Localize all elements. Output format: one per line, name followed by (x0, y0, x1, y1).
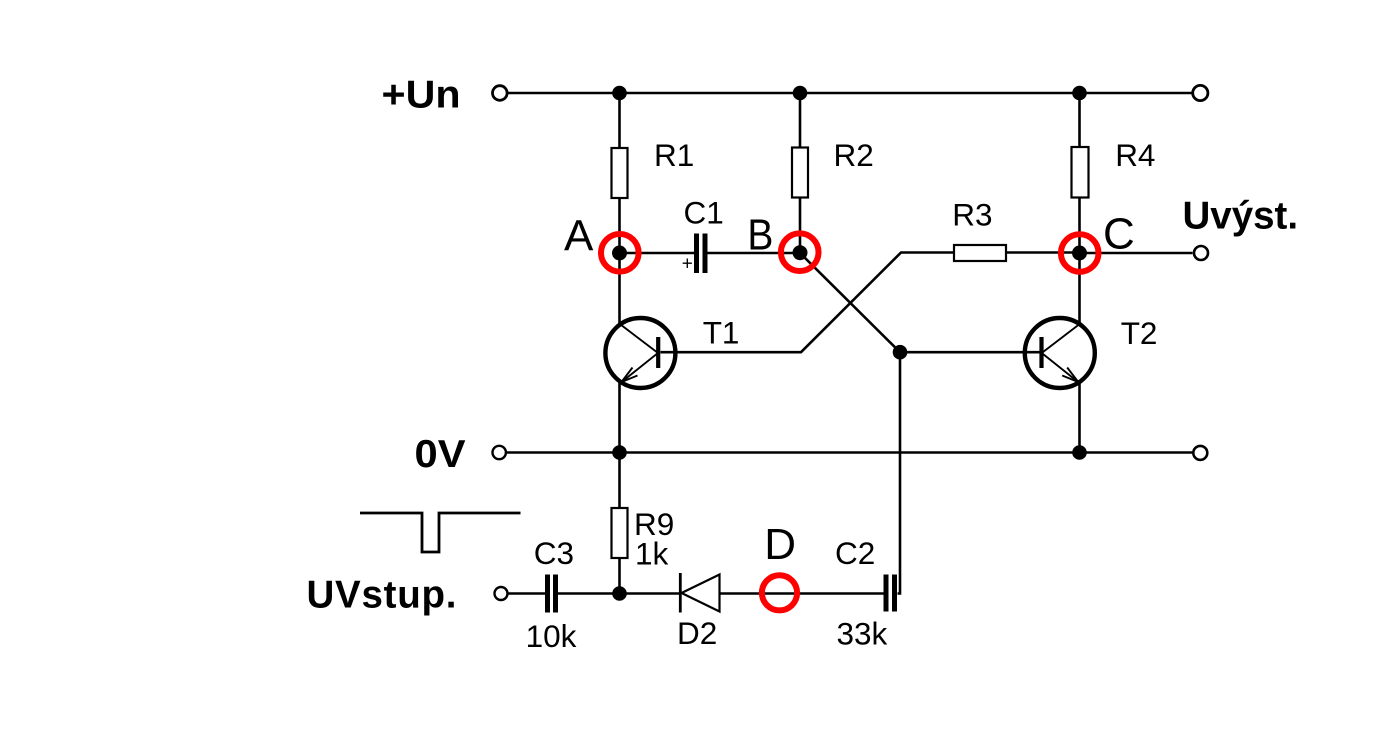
svg-text:D: D (764, 520, 796, 569)
svg-text:B: B (747, 210, 773, 259)
svg-text:Uvýst.: Uvýst. (1183, 195, 1299, 238)
svg-text:+: + (682, 253, 693, 274)
svg-text:10k: 10k (526, 618, 577, 654)
svg-text:A: A (564, 211, 594, 260)
svg-text:C1: C1 (684, 194, 724, 230)
svg-text:33k: 33k (837, 616, 888, 652)
svg-text:T1: T1 (703, 315, 740, 351)
svg-text:C3: C3 (534, 535, 574, 571)
svg-text:D2: D2 (677, 615, 717, 651)
svg-text:R2: R2 (834, 137, 874, 173)
svg-text:+Un: +Un (382, 74, 461, 117)
svg-text:UVstup.: UVstup. (307, 574, 457, 617)
svg-text:C: C (1103, 210, 1135, 259)
svg-text:T2: T2 (1121, 315, 1158, 351)
svg-text:C2: C2 (835, 535, 875, 571)
svg-text:R4: R4 (1115, 137, 1155, 173)
svg-text:0V: 0V (415, 433, 466, 476)
svg-text:R1: R1 (654, 137, 694, 173)
svg-text:1k: 1k (635, 536, 669, 572)
svg-text:R3: R3 (952, 196, 992, 232)
